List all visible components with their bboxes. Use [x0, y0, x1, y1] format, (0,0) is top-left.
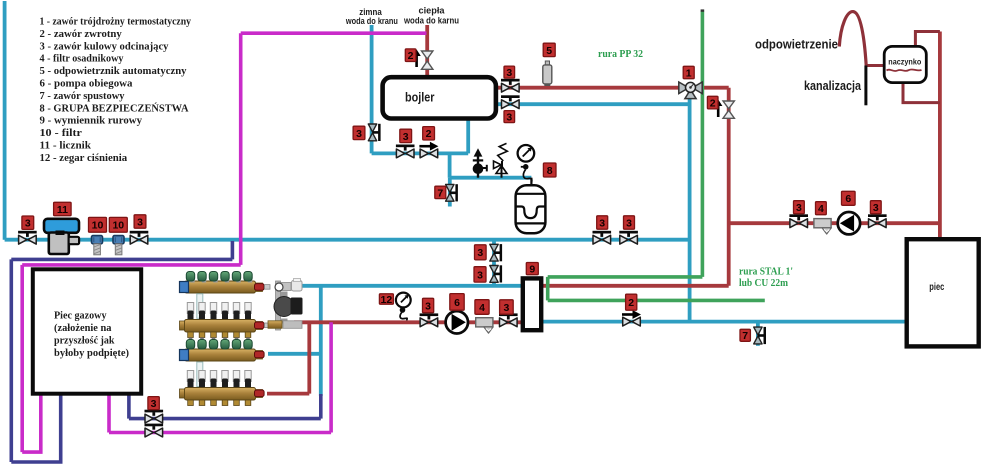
- svg-text:odpowietrzenie: odpowietrzenie: [755, 38, 838, 52]
- label 11 licznik: [54, 202, 72, 215]
- manifold group B sight tube: [197, 362, 203, 387]
- valve Z3 water main A: [593, 231, 612, 244]
- label 4 filter a4: [475, 300, 489, 315]
- label 3 water main a: [597, 216, 608, 229]
- label 3 future lines: [148, 397, 159, 410]
- wire navy horizontal y419: [129, 417, 321, 421]
- wire magenta bottom U: [22, 394, 41, 452]
- svg-text:3: 3: [356, 128, 362, 140]
- valve Z3 on magenta future line: [145, 424, 164, 437]
- svg-text:3: 3: [796, 202, 802, 214]
- svg-text:piec: piec: [929, 282, 944, 293]
- wire navy bottom U: [11, 394, 60, 462]
- svg-text:10: 10: [112, 220, 124, 232]
- wire green future riser x702: [701, 12, 705, 277]
- label 3 piec left: [794, 201, 805, 214]
- wire vent arc odpowietrzenie: [839, 12, 866, 66]
- label 3 bojler return: [504, 111, 515, 123]
- svg-text:3: 3: [873, 202, 879, 214]
- wire manifold riser x321: [319, 286, 323, 396]
- svg-text:6: 6: [845, 193, 851, 205]
- svg-text:3: 3: [137, 216, 143, 228]
- wire bojler cold return y104: [496, 102, 690, 106]
- wire magenta horizontal y432: [109, 431, 331, 435]
- svg-text:5: 5: [546, 45, 552, 57]
- svg-text:byłoby podpięte): byłoby podpięte): [54, 347, 129, 359]
- check valve Z2 on ciepla riser: [412, 50, 433, 70]
- svg-text:rura STAL 1': rura STAL 1': [739, 266, 793, 278]
- svg-text:woda do kranu: woda do kranu: [345, 16, 398, 27]
- wire piec riser x940: [938, 32, 942, 240]
- svg-text:bojler: bojler: [405, 90, 435, 105]
- manifold group A supply bar: [180, 272, 271, 294]
- svg-text:(założenie na: (założenie na: [54, 322, 112, 334]
- valve Z3 meter-line right: [130, 231, 149, 244]
- wire ciepla outlet vertical x427: [425, 25, 429, 78]
- furnace box piec: [907, 239, 979, 346]
- valve Z3 bojler cold return: [501, 95, 520, 108]
- boiler tank bojler: [383, 77, 496, 118]
- wire navy left vertical x11: [10, 259, 14, 462]
- manifold group A return bar: [180, 320, 271, 341]
- wire lower manifold return y394: [267, 392, 309, 396]
- valve Z3 bypass upper: [490, 244, 502, 261]
- manifold group B supply bar: [180, 340, 265, 362]
- svg-text:2 - zawór zwrotny: 2 - zawór zwrotny: [40, 28, 123, 40]
- valve Z3 piec circuit right: [868, 214, 887, 227]
- label 2 check exch: [626, 294, 637, 310]
- svg-text:6: 6: [454, 297, 460, 309]
- svg-text:3: 3: [151, 398, 157, 410]
- svg-text:2: 2: [408, 50, 414, 62]
- wire piec circuit y223: [729, 221, 940, 225]
- svg-text:Piec gazowy: Piec gazowy: [54, 309, 107, 321]
- svg-text:6 - pompa obiegowa: 6 - pompa obiegowa: [40, 78, 134, 90]
- wire heat-exchanger hot y286: [541, 284, 729, 288]
- wire magenta horizontal y265: [22, 263, 241, 267]
- kanalizacja drain line: [864, 66, 867, 106]
- svg-text:9 - wymiennik rurowy: 9 - wymiennik rurowy: [40, 115, 143, 127]
- wire vertical from valve U1 bottom to lower main x690: [688, 97, 692, 322]
- wire naczynko top loop: [915, 32, 940, 47]
- label 3 bypass upper: [475, 245, 487, 260]
- expansion cup naczynko: [884, 46, 926, 82]
- svg-text:3: 3: [503, 302, 509, 314]
- svg-text:2: 2: [426, 128, 432, 140]
- wire navy tail of riser x321: [319, 394, 323, 419]
- safety group U8 pressure gauge: [518, 145, 535, 185]
- label 3 pump line b: [500, 300, 514, 314]
- green riser top cap: [701, 9, 705, 11]
- manifold group B flow meters: [187, 371, 251, 389]
- svg-text:1 - zawór trójdrożny termostat: 1 - zawór trójdrożny termostatyczny: [40, 16, 192, 28]
- safety group U8 relief valve: [473, 148, 487, 178]
- svg-text:3: 3: [506, 67, 512, 79]
- svg-text:3: 3: [506, 112, 512, 124]
- wire magenta top horizontal y33: [241, 31, 427, 35]
- label 2 ciepla check: [405, 49, 416, 62]
- wire bojler bottom stub x468: [466, 119, 470, 153]
- svg-text:10: 10: [92, 220, 104, 232]
- label 3 piec right: [870, 201, 881, 214]
- filter F4b piec circuit: [814, 219, 831, 234]
- svg-text:11: 11: [57, 204, 68, 216]
- wire cold-water main horizontal y240: [5, 238, 690, 242]
- check valve Z2 on bojler feed y153: [419, 142, 438, 158]
- label 5 air vent: [543, 43, 555, 56]
- svg-text:12: 12: [381, 294, 393, 306]
- svg-text:3: 3: [599, 217, 605, 229]
- check valve Z2 on exchanger-piec line: [622, 310, 641, 326]
- valve Z3 before exchanger: [499, 313, 518, 326]
- wire naczynko left stub: [866, 64, 884, 67]
- wire magenta vertical x241: [239, 33, 243, 265]
- naczynko water wave: [887, 69, 922, 71]
- wire hot riser x729: [727, 88, 731, 286]
- valve Z3 meter-line left: [18, 231, 37, 244]
- label 4 filter b4: [816, 202, 827, 215]
- wire navy horizontal y259: [11, 258, 232, 262]
- drain valve Z7a: [446, 184, 458, 201]
- label 3 pump line a: [423, 298, 434, 312]
- svg-text:3: 3: [477, 247, 483, 259]
- wire magenta left vertical x22: [20, 265, 24, 452]
- label 9 wymiennik: [526, 263, 538, 275]
- pump P6b piec circuit: [838, 212, 860, 234]
- wire zimna inlet vertical x371: [370, 25, 374, 153]
- wire green upper horizontal y277: [548, 275, 703, 279]
- svg-text:3: 3: [425, 300, 431, 312]
- valve Z3 piec circuit left: [789, 214, 808, 227]
- wire cold-water left vertical: [3, 1, 7, 240]
- valve Z3 bypass lower: [490, 265, 502, 282]
- wire manifold supply main y286: [303, 284, 523, 288]
- wire drain stub valve Z7b: [756, 322, 760, 346]
- gas furnace box Piec gazowy: [33, 269, 141, 393]
- svg-text:2: 2: [628, 297, 634, 309]
- wire heat-exchanger to piec y322: [541, 320, 907, 324]
- air vent U5 odpowietrznik: [543, 61, 552, 86]
- expansion vessel U8: [516, 178, 546, 234]
- check valve Z2 on hot riser: [714, 100, 734, 119]
- manifold pump station: [268, 279, 303, 331]
- label 3 water main b: [624, 216, 635, 229]
- svg-text:3: 3: [25, 218, 31, 230]
- manifold group A sight tube: [197, 294, 203, 319]
- svg-text:3: 3: [477, 269, 483, 281]
- label 3 bojler feed: [400, 129, 412, 142]
- svg-text:przyszłość jak: przyszłość jak: [54, 335, 115, 347]
- heat exchanger U9 wymiennik rurowy: [523, 278, 541, 330]
- label 3 meter right: [134, 215, 146, 228]
- svg-text:woda do karnu: woda do karnu: [403, 16, 459, 27]
- water level wave in naczynko: [887, 69, 922, 71]
- label 6 pump b: [842, 191, 856, 205]
- svg-text:3 - zawór kulowy odcinający: 3 - zawór kulowy odcinający: [40, 40, 170, 52]
- svg-text:rura PP 32: rura PP 32: [598, 48, 643, 60]
- label 3 bojler hot: [504, 66, 515, 78]
- valve Z3 on zimna riser: [368, 124, 380, 141]
- water meter L11 licznik: [44, 219, 79, 254]
- wire safety group horizontal y178: [450, 176, 532, 180]
- manifold group B return bar: [180, 388, 265, 406]
- filter F10a: [92, 236, 103, 255]
- svg-text:7 - zawór spustowy: 7 - zawór spustowy: [40, 90, 126, 102]
- wire navy drop from meter line x232: [231, 241, 235, 259]
- wire green lower horizontal y300: [548, 299, 765, 303]
- wire green vertical at exchanger x548: [546, 277, 550, 301]
- wire drop to safety group x449: [448, 153, 452, 177]
- wire manifold return main y322: [294, 320, 523, 324]
- svg-text:3: 3: [403, 131, 409, 143]
- svg-text:11 - licznik: 11 - licznik: [40, 140, 92, 152]
- label 2 hot riser check: [707, 96, 718, 109]
- valve Z3 before pump P6a: [420, 313, 439, 326]
- svg-text:2: 2: [710, 98, 716, 110]
- svg-text:4: 4: [818, 203, 824, 215]
- manifold group A flow meters: [187, 303, 251, 321]
- label 2 bojler feed check: [423, 127, 435, 140]
- filter F4a osadnikowy: [476, 318, 493, 333]
- label 7 drain a: [435, 186, 446, 198]
- svg-text:1: 1: [686, 67, 692, 79]
- valve Z3 on navy future line: [145, 410, 164, 423]
- svg-text:12 - zegar ciśnienia: 12 - zegar ciśnienia: [40, 152, 128, 164]
- wire lower manifold supply y354: [268, 352, 321, 356]
- wire navy stub under piec-gazowy x129: [127, 394, 131, 419]
- valve Z3 bojler hot outlet: [501, 79, 520, 92]
- wire bojler hot supply y88: [496, 86, 691, 90]
- valve Z3 on bojler feed y153: [396, 145, 415, 158]
- wire valve U1 to corner y88: [691, 86, 729, 90]
- safety group U8 pressure relief with spring: [494, 143, 508, 177]
- pressure gauge U12 zegar: [396, 293, 411, 321]
- label 6 pump a: [450, 294, 464, 311]
- pump P6a pompa obiegowa: [446, 311, 468, 333]
- label 1 three-way: [683, 66, 694, 78]
- label 7 drain b: [740, 329, 750, 341]
- label 12 zegar: [379, 294, 393, 304]
- svg-text:kanalizacja: kanalizacja: [804, 79, 862, 93]
- svg-text:4: 4: [479, 302, 485, 314]
- wire naczynko bottom loop: [903, 83, 940, 103]
- svg-text:8 - GRUPA BEZPIECZEŃSTWA: 8 - GRUPA BEZPIECZEŃSTWA: [40, 102, 189, 114]
- label 3 meter left: [22, 216, 34, 229]
- wire drain stub valve Z7a: [448, 178, 452, 207]
- svg-text:naczynko: naczynko: [888, 58, 921, 67]
- label 3 zimna riser: [353, 126, 365, 139]
- drain valve Z7b: [754, 327, 766, 344]
- svg-text:lub CU 22m: lub CU 22m: [739, 277, 788, 289]
- svg-text:10 - filtr: 10 - filtr: [40, 127, 83, 139]
- label 10 filter a: [89, 217, 107, 232]
- svg-text:7: 7: [742, 330, 748, 342]
- svg-text:3: 3: [626, 217, 632, 229]
- wire magenta riser x331: [329, 322, 333, 432]
- svg-text:4 - filtr osadnikowy: 4 - filtr osadnikowy: [40, 53, 125, 65]
- three-way valve U1: [679, 82, 702, 99]
- svg-text:7: 7: [437, 187, 443, 199]
- wire bojler feed horizontal y153: [372, 151, 469, 155]
- svg-text:5 - odpowietrznik automatyczny: 5 - odpowietrznik automatyczny: [40, 65, 188, 77]
- filter F10b: [113, 236, 124, 255]
- wire bypass vertical x494: [492, 240, 496, 286]
- wire lower return riser x309: [307, 322, 311, 393]
- valve Z3 water main B: [619, 231, 638, 244]
- label 3 bypass lower: [474, 267, 486, 282]
- wire magenta stub under piec-gazowy x109: [107, 394, 111, 433]
- label 8 grupa: [543, 163, 556, 177]
- svg-text:9: 9: [529, 264, 535, 276]
- label 10 filter b: [109, 217, 127, 232]
- svg-text:8: 8: [547, 165, 553, 177]
- legend: [40, 16, 192, 164]
